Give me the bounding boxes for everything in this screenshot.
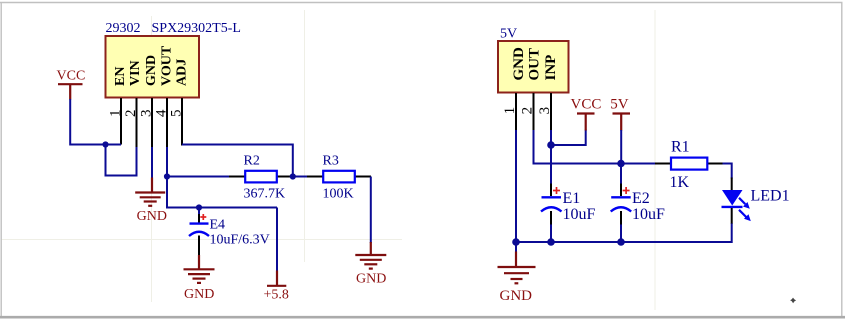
cursor mark [790, 298, 796, 304]
pin 1 stub [120, 98, 122, 145]
svg-text:3: 3 [537, 107, 553, 115]
svg-text:GND: GND [184, 287, 214, 302]
junction E1/rail [547, 238, 555, 246]
wire R3 to ground [370, 177, 372, 244]
svg-text:EN: EN [113, 67, 128, 86]
frame right border [841, 3, 843, 318]
resistor R3 [307, 154, 371, 202]
junction VOUT node [164, 173, 170, 179]
svg-text:GND: GND [511, 47, 527, 81]
svg-text:R1: R1 [671, 139, 690, 156]
junction R2/R3/ADJ node [290, 173, 296, 179]
svg-text:29302: 29302 [106, 21, 141, 36]
svg-text:VCC: VCC [571, 97, 602, 113]
ground symbol at R3 [355, 242, 386, 287]
svg-text:10uF/6.3V: 10uF/6.3V [210, 232, 270, 247]
frame bottom border [0, 316, 845, 319]
wire 5V down to OUT wire [620, 130, 622, 164]
bottom rail wire [516, 241, 732, 243]
faint sheet grid line vertical C [654, 10, 656, 310]
svg-text:OUT: OUT [526, 48, 542, 81]
junction E4 node [196, 204, 202, 210]
resistor R2 [229, 154, 293, 202]
svg-text:10uF: 10uF [563, 206, 596, 223]
frame top border [0, 2, 843, 4]
svg-text:LED1: LED1 [751, 188, 790, 205]
svg-text:GND: GND [144, 55, 159, 86]
svg-text:1: 1 [107, 109, 123, 117]
ground symbol at pin 3 [135, 178, 167, 225]
power symbol VCC (right) [571, 97, 602, 131]
junction INP node [547, 141, 555, 149]
svg-text:+5.8: +5.8 [264, 288, 289, 303]
junction VCC/pin1 [102, 141, 108, 147]
wire INP to VCC [551, 130, 586, 146]
faint sheet grid line vertical A [151, 16, 153, 302]
regulator IC body (right) [498, 41, 569, 93]
faint sheet grid line vertical B [304, 10, 306, 262]
svg-text:100K: 100K [323, 186, 354, 201]
pin 5 stub [181, 98, 183, 146]
wire pin2 OUT to R1 [534, 130, 657, 164]
svg-text:E2: E2 [632, 190, 650, 207]
power symbol 5V (right) [610, 97, 630, 131]
svg-text:2: 2 [520, 107, 536, 115]
svg-text:10uF: 10uF [632, 206, 665, 223]
capacitor E1 [541, 184, 596, 243]
wire LED to rail [731, 224, 733, 244]
svg-text:VIN: VIN [128, 60, 143, 86]
svg-text:R2: R2 [244, 154, 260, 169]
capacitor E2 [611, 164, 665, 243]
svg-text:INP: INP [543, 55, 559, 81]
frame left border [0, 3, 2, 318]
junction pin1/rail [512, 238, 520, 246]
svg-text:VCC: VCC [57, 69, 86, 84]
svg-text:4: 4 [153, 109, 169, 117]
svg-text:SPX29302T5-L: SPX29302T5-L [152, 21, 241, 36]
power symbol VCC (left) [57, 69, 86, 100]
regulator IC body SPX29302 [106, 36, 200, 98]
wire to +5.8 [276, 208, 278, 272]
wire ADJ feedback [182, 145, 293, 177]
svg-text:GND: GND [137, 209, 167, 224]
LED LED1 [722, 178, 790, 225]
wire pin3 INP node [550, 130, 552, 185]
wire VOUT down branch to E4 and +5.8 [167, 177, 277, 208]
svg-text:1: 1 [502, 107, 518, 115]
wire pin3 to ground [151, 147, 153, 178]
pin 2 stub (right chip) [533, 93, 535, 131]
svg-text:ADJ: ADJ [175, 59, 190, 86]
svg-text:1K: 1K [670, 174, 690, 191]
svg-text:GND: GND [500, 288, 533, 304]
power symbol +5.8 [264, 271, 289, 303]
wire pin1 to bottom rail [515, 130, 517, 242]
wire VCC branch to pin 2 [106, 145, 137, 176]
resistor R1 [655, 139, 724, 192]
svg-text:GND: GND [356, 272, 386, 287]
ground symbol (right) [498, 252, 536, 305]
svg-text:R3: R3 [323, 154, 339, 169]
capacitor E4 [189, 208, 270, 256]
wire VCC down [70, 99, 121, 145]
pin 4 stub [166, 98, 168, 148]
pin 3 stub (right chip) [550, 93, 552, 131]
svg-text:VOUT: VOUT [159, 45, 174, 86]
wire VOUT to R2 [167, 176, 230, 178]
svg-text:5: 5 [168, 109, 184, 117]
svg-text:E4: E4 [210, 217, 226, 232]
junction 5V/E2 on OUT wire [617, 160, 625, 168]
pin 3 stub [151, 98, 153, 148]
svg-text:5V: 5V [610, 97, 629, 113]
pin 1 stub (right chip) [515, 93, 517, 131]
pin 2 stub [136, 98, 138, 148]
junction E2/rail [617, 238, 625, 246]
wire rail to ground [515, 242, 517, 252]
svg-text:5V: 5V [500, 27, 517, 42]
svg-text:2: 2 [123, 109, 139, 117]
wire R1 to LED [723, 164, 732, 179]
faint sheet grid line horizontal D [2, 239, 402, 241]
svg-text:E1: E1 [563, 190, 581, 207]
svg-text:3: 3 [138, 109, 154, 117]
ground symbol at E4 [184, 255, 215, 302]
wire pin4 VOUT down [166, 147, 168, 177]
wire node to R3 [293, 176, 308, 178]
svg-text:367.7K: 367.7K [244, 186, 286, 201]
